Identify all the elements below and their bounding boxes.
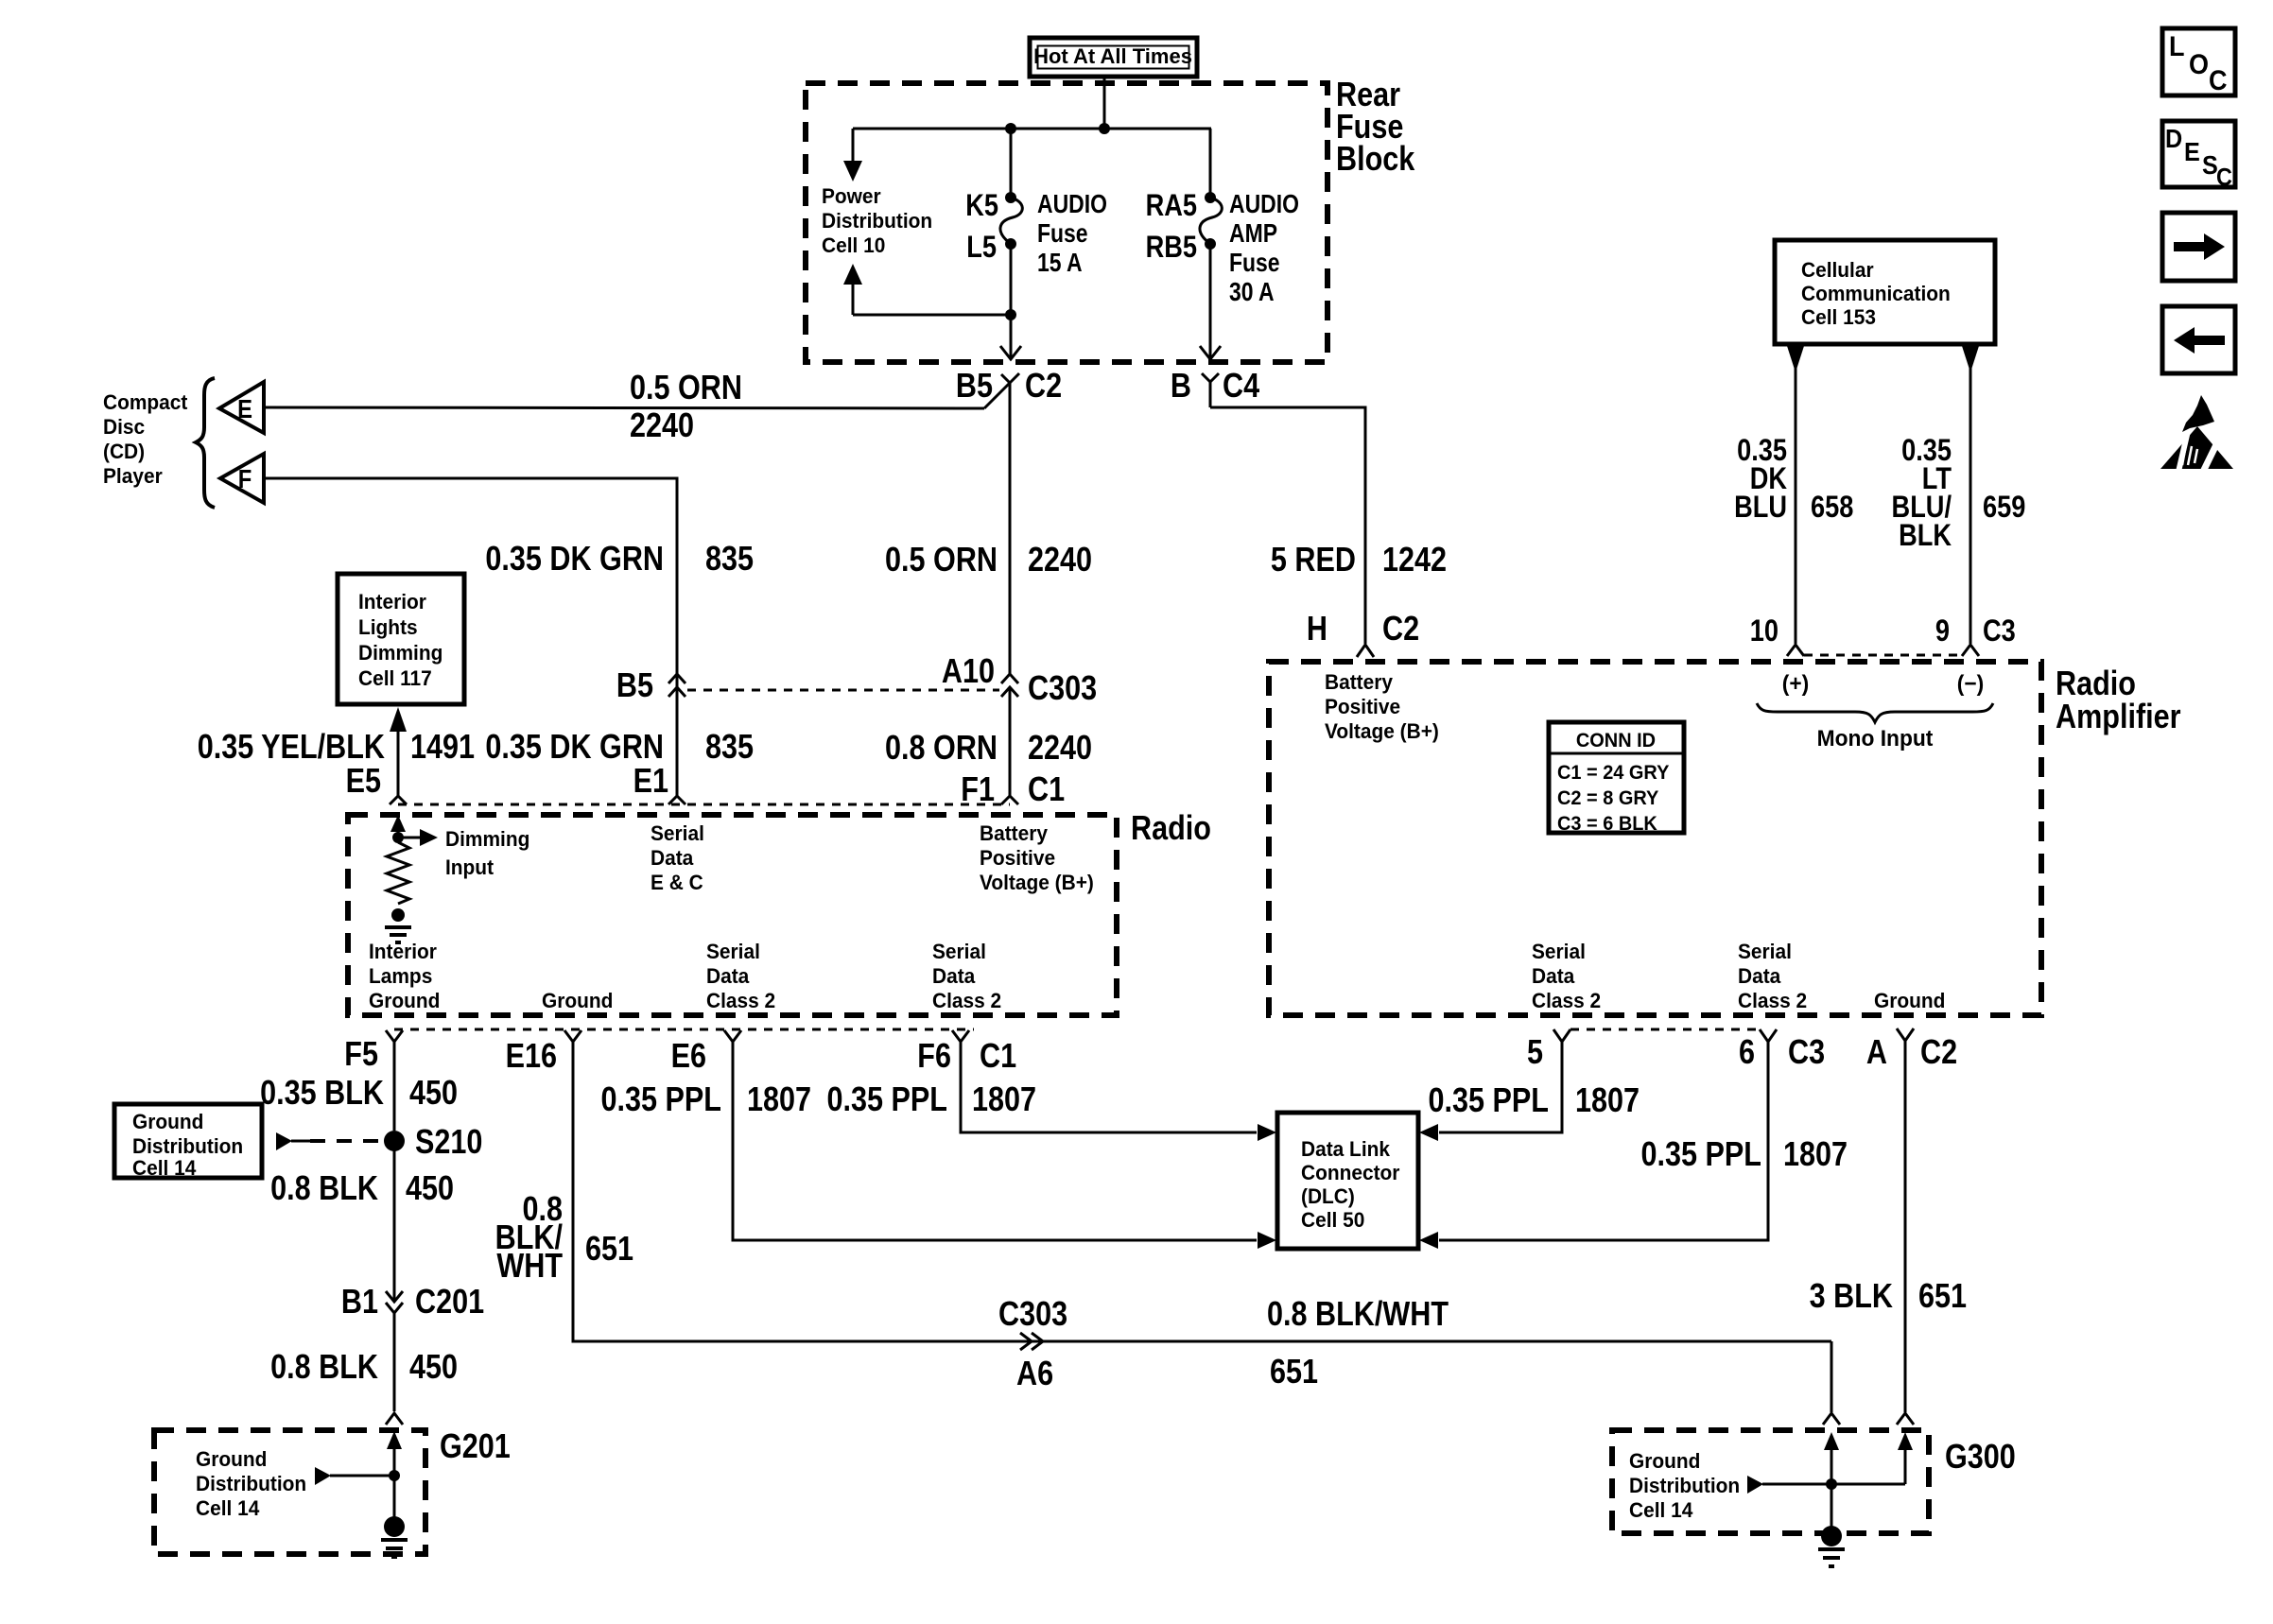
fuse AUDIO AMP Fuse 30A — [1200, 129, 1222, 250]
svg-text:Battery: Battery — [1325, 671, 1393, 695]
svg-text:10: 10 — [1750, 614, 1778, 648]
connector chevrons above G300 — [1823, 1413, 1840, 1425]
svg-text:Serial: Serial — [1738, 941, 1792, 964]
svg-text:C1: C1 — [1028, 771, 1065, 809]
ground G201 box — [154, 1430, 425, 1554]
svg-text:E & C: E & C — [651, 872, 703, 895]
connector E triangle — [219, 382, 264, 433]
svg-text:G300: G300 — [1945, 1439, 2016, 1477]
svg-text:C303: C303 — [1028, 670, 1097, 708]
svg-text:Cell 153: Cell 153 — [1801, 306, 1876, 330]
svg-text:0.8 BLK: 0.8 BLK — [270, 1349, 378, 1387]
svg-text:Cell 117: Cell 117 — [358, 667, 432, 691]
radio outline — [348, 815, 1117, 1015]
power distribution feed arrow — [843, 129, 862, 181]
svg-text:C: C — [2216, 164, 2232, 191]
svg-text:E: E — [237, 393, 252, 423]
svg-text:C2: C2 — [1025, 368, 1062, 406]
bus wire inside fuse block — [853, 128, 1211, 130]
svg-text:A6: A6 — [1016, 1356, 1053, 1393]
connector pin 6 / C3 — [1760, 1029, 1777, 1042]
svg-text:BLK: BLK — [1899, 519, 1952, 553]
icon LOC — [2162, 28, 2235, 96]
svg-text:Voltage (B+): Voltage (B+) — [1325, 720, 1439, 744]
ground G300 box — [1612, 1430, 1929, 1533]
svg-text:Serial: Serial — [932, 941, 986, 964]
G201 splice triangle — [315, 1467, 400, 1485]
wire 0.35 PPL 1807 from F6 to DLC — [961, 1042, 1276, 1141]
svg-text:Lights: Lights — [358, 616, 418, 640]
svg-text:E1: E1 — [633, 763, 668, 801]
svg-text:Lamps: Lamps — [369, 965, 432, 989]
svg-text:Distribution: Distribution — [132, 1135, 243, 1159]
svg-text:C2: C2 — [1382, 611, 1419, 648]
connector E6 — [724, 1030, 741, 1042]
radio internal case ground — [385, 908, 411, 942]
connector F5 — [386, 1030, 403, 1042]
svg-text:Cell 14: Cell 14 — [1629, 1499, 1692, 1523]
connector H / C2 at amplifier — [1357, 645, 1374, 657]
icon DESC — [2162, 121, 2235, 191]
connector pin 9 / C3 — [1962, 645, 1979, 656]
svg-text:C: C — [2209, 65, 2227, 97]
dashed splice link to S210 — [276, 1132, 386, 1150]
wire fuse2 output — [1200, 244, 1221, 359]
svg-text:CONN ID: CONN ID — [1576, 730, 1656, 752]
svg-text:B1: B1 — [341, 1284, 378, 1322]
radio amplifier outline — [1269, 662, 2041, 1015]
svg-text:Fuse: Fuse — [1229, 249, 1280, 278]
svg-text:450: 450 — [409, 1349, 458, 1387]
connector F1 / C1 — [1001, 796, 1018, 804]
svg-text:F: F — [238, 463, 252, 493]
svg-text:1491: 1491 — [410, 729, 475, 767]
interior lights dimming box — [338, 574, 464, 704]
wire 0.8 BLK 450 (S210 to C201) — [393, 1141, 396, 1302]
svg-text:C4: C4 — [1223, 368, 1259, 406]
svg-text:Dimming: Dimming — [445, 828, 529, 852]
connector row at radio top — [398, 803, 1010, 806]
svg-text:Data: Data — [1532, 965, 1575, 989]
connector E5 — [390, 796, 407, 804]
svg-text:Amplifier: Amplifier — [2056, 699, 2181, 736]
svg-text:Data Link: Data Link — [1301, 1138, 1390, 1162]
svg-text:Ground: Ground — [132, 1111, 203, 1134]
G300 internal arrows and wires — [1824, 1432, 1913, 1538]
power distribution return arrow — [843, 264, 1011, 315]
svg-text:Ground: Ground — [542, 990, 613, 1013]
svg-text:Block: Block — [1336, 141, 1415, 179]
svg-text:C3 = 6 BLK: C3 = 6 BLK — [1557, 813, 1657, 836]
connector row at amplifier top — [1804, 654, 1962, 657]
svg-text:Connector: Connector — [1301, 1162, 1400, 1185]
svg-text:H: H — [1307, 611, 1327, 648]
svg-text:B: B — [1171, 368, 1191, 406]
connector C303 / A6 on 651 wire — [1020, 1333, 1043, 1350]
svg-text:Hot At All Times: Hot At All Times — [1033, 44, 1192, 68]
svg-text:Positive: Positive — [980, 847, 1055, 871]
svg-text:835: 835 — [705, 541, 754, 579]
svg-text:L5: L5 — [966, 231, 997, 265]
svg-text:E16: E16 — [506, 1038, 557, 1076]
svg-text:651: 651 — [1270, 1354, 1318, 1391]
connector B5 chevrons on F wire — [668, 674, 685, 697]
svg-text:AMP: AMP — [1229, 219, 1277, 249]
connector B5 / C2 at fuse block output — [984, 373, 1019, 674]
svg-text:(+): (+) — [1782, 670, 1809, 696]
svg-text:Ground: Ground — [1629, 1450, 1700, 1474]
wire 5 RED 1242 from C4 to radio amplifier — [1210, 407, 1365, 644]
svg-text:A: A — [1866, 1034, 1887, 1072]
wire 0.5 ORN 2240 from E to B5 — [264, 407, 984, 408]
G201 internal arrow and wire — [387, 1431, 402, 1529]
power source label "Hot At All Times" — [1030, 38, 1197, 77]
svg-text:0.8 ORN: 0.8 ORN — [885, 730, 998, 768]
svg-text:RB5: RB5 — [1146, 231, 1197, 265]
svg-text:B5: B5 — [616, 667, 653, 705]
svg-text:Dimming: Dimming — [358, 642, 442, 665]
svg-text:15 A: 15 A — [1037, 249, 1083, 278]
svg-text:0.35 PPL: 0.35 PPL — [1428, 1082, 1549, 1120]
svg-text:5: 5 — [1527, 1034, 1543, 1072]
svg-text:3 BLK: 3 BLK — [1810, 1278, 1893, 1316]
connector E1 — [668, 796, 685, 804]
svg-text:Mono Input: Mono Input — [1817, 725, 1934, 751]
svg-text:0.35 PPL: 0.35 PPL — [600, 1081, 721, 1119]
svg-text:D: D — [2165, 124, 2182, 154]
svg-text:450: 450 — [409, 1075, 458, 1113]
svg-text:1807: 1807 — [747, 1081, 811, 1119]
wire 3 BLK 651 from pin A to G300 — [1904, 1041, 1907, 1412]
rear fuse block outline — [806, 83, 1327, 362]
svg-text:Distribution: Distribution — [196, 1473, 306, 1496]
connector F6 / C1 — [952, 1030, 969, 1042]
svg-text:E: E — [2184, 137, 2200, 167]
svg-text:1807: 1807 — [1575, 1082, 1640, 1120]
svg-text:30 A: 30 A — [1229, 278, 1275, 307]
svg-text:1807: 1807 — [972, 1081, 1036, 1119]
svg-text:Voltage (B+): Voltage (B+) — [980, 872, 1094, 895]
wire hot feed into fuse block — [1103, 77, 1106, 129]
svg-text:Class 2: Class 2 — [706, 990, 775, 1013]
mono input brace — [1757, 703, 1993, 722]
connector chevron above G201 — [386, 1413, 403, 1425]
svg-text:450: 450 — [406, 1170, 454, 1208]
svg-text:0.35 DK GRN: 0.35 DK GRN — [485, 541, 664, 579]
svg-text:Serial: Serial — [1532, 941, 1586, 964]
icon ESD warning — [2160, 395, 2233, 472]
svg-text:Input: Input — [445, 856, 494, 880]
svg-text:Cell 50: Cell 50 — [1301, 1209, 1364, 1233]
svg-text:651: 651 — [1918, 1278, 1967, 1316]
svg-text:S210: S210 — [415, 1124, 482, 1162]
svg-text:Communication: Communication — [1801, 283, 1951, 306]
G300 ground symbol — [1818, 1526, 1845, 1566]
svg-text:O: O — [2189, 49, 2209, 81]
svg-text:Disc: Disc — [103, 416, 145, 440]
svg-text:9: 9 — [1935, 614, 1950, 648]
svg-text:Positive: Positive — [1325, 696, 1400, 719]
svg-text:Battery: Battery — [980, 822, 1048, 846]
svg-text:1807: 1807 — [1783, 1136, 1848, 1174]
svg-text:L: L — [2169, 31, 2184, 63]
wire 651 turn down to G300 — [1831, 1341, 1833, 1412]
svg-text:Ground: Ground — [369, 990, 440, 1013]
svg-text:RA5: RA5 — [1146, 189, 1197, 223]
wire 0.35 PPL 1807 from pin 6 to DLC — [1419, 1042, 1768, 1249]
connector pin 5 — [1553, 1029, 1570, 1042]
wire 0.35 YEL/BLK 1491 to interior lights — [390, 707, 407, 796]
svg-text:835: 835 — [705, 729, 754, 767]
svg-text:AUDIO: AUDIO — [1229, 190, 1299, 219]
svg-text:Data: Data — [932, 965, 976, 989]
svg-text:C201: C201 — [415, 1284, 484, 1322]
wire 0.35 LT BLU/BLK 659 — [1962, 344, 1979, 644]
svg-text:E6: E6 — [671, 1038, 706, 1076]
svg-text:C3: C3 — [1983, 614, 2016, 648]
svg-text:Class 2: Class 2 — [1532, 990, 1601, 1013]
wire 0.8 BLK/WHT 651 from E16 — [573, 1042, 1831, 1341]
svg-text:0.35 PPL: 0.35 PPL — [1640, 1136, 1761, 1174]
svg-text:658: 658 — [1811, 491, 1853, 525]
svg-text:651: 651 — [585, 1231, 633, 1269]
svg-text:C303: C303 — [998, 1296, 1067, 1334]
svg-text:Interior: Interior — [369, 941, 438, 964]
connector row at radio bottom — [394, 1028, 974, 1031]
connector pin A / C2 — [1897, 1028, 1914, 1041]
G300 splice triangle — [1747, 1476, 1837, 1494]
connector pin 10 — [1787, 645, 1804, 656]
connector row at amplifier bottom — [1570, 1028, 1760, 1031]
svg-text:AUDIO: AUDIO — [1037, 190, 1107, 219]
svg-text:0.5 ORN: 0.5 ORN — [630, 370, 742, 407]
wire 0.35 PPL 1807 from E6 to DLC — [733, 1042, 1276, 1249]
svg-text:C3: C3 — [1788, 1034, 1825, 1072]
svg-text:Class 2: Class 2 — [932, 990, 1001, 1013]
svg-text:2240: 2240 — [630, 407, 694, 445]
svg-text:(CD): (CD) — [103, 441, 145, 464]
svg-text:B5: B5 — [956, 368, 993, 406]
svg-text:Interior: Interior — [358, 591, 427, 614]
svg-text:0.35 DK GRN: 0.35 DK GRN — [485, 729, 664, 767]
svg-text:0.8 BLK: 0.8 BLK — [270, 1170, 378, 1208]
svg-text:Player: Player — [103, 465, 163, 489]
G201 ground symbol — [381, 1516, 408, 1557]
wire fuse1 output — [1000, 244, 1021, 359]
svg-text:659: 659 — [1983, 491, 2025, 525]
radio dimming input arrow — [390, 815, 438, 846]
svg-text:0.35 YEL/BLK: 0.35 YEL/BLK — [198, 729, 385, 767]
svg-text:2240: 2240 — [1028, 730, 1092, 768]
svg-text:Cell 14: Cell 14 — [132, 1157, 196, 1181]
svg-text:Power: Power — [822, 185, 881, 209]
splice S210 — [384, 1131, 405, 1151]
wire 0.35 PPL 1807 from pin 5 to DLC — [1419, 1042, 1562, 1141]
svg-text:Radio: Radio — [2056, 665, 2136, 703]
svg-text:0.8 BLK/WHT: 0.8 BLK/WHT — [1267, 1296, 1449, 1334]
svg-text:Ground: Ground — [1874, 990, 1945, 1013]
CONN ID table — [1549, 722, 1684, 835]
svg-text:Ground: Ground — [196, 1448, 267, 1472]
svg-text:1242: 1242 — [1382, 542, 1447, 579]
svg-text:C2: C2 — [1920, 1034, 1957, 1072]
data link connector box — [1277, 1113, 1418, 1249]
svg-text:Compact: Compact — [103, 391, 187, 415]
svg-text:Fuse: Fuse — [1037, 219, 1088, 249]
svg-text:(−): (−) — [1957, 670, 1984, 696]
svg-text:Class 2: Class 2 — [1738, 990, 1807, 1013]
svg-text:Cell 14: Cell 14 — [196, 1497, 259, 1521]
connector A10 / C303 chevrons — [1001, 674, 1018, 697]
svg-text:5 RED: 5 RED — [1271, 542, 1356, 579]
svg-text:0.35 BLK: 0.35 BLK — [260, 1075, 384, 1113]
svg-text:Data: Data — [706, 965, 750, 989]
cellular communication box — [1775, 240, 1995, 344]
svg-text:C1 = 24 GRY: C1 = 24 GRY — [1557, 762, 1670, 785]
svg-text:WHT: WHT — [496, 1248, 563, 1286]
node at hot feed — [1099, 123, 1110, 134]
connector B1 / C201 — [386, 1291, 403, 1411]
svg-text:F5: F5 — [344, 1036, 378, 1074]
fuse AUDIO Fuse 15A — [1000, 129, 1022, 250]
svg-text:Data: Data — [1738, 965, 1781, 989]
node at fuse1 feed — [1005, 123, 1016, 134]
svg-text:0.35 PPL: 0.35 PPL — [826, 1081, 947, 1119]
svg-text:Cell 10: Cell 10 — [822, 234, 885, 258]
svg-text:Data: Data — [651, 847, 694, 871]
svg-text:6: 6 — [1739, 1034, 1755, 1072]
connector F triangle — [220, 454, 264, 503]
wire 0.35 DK GRN 835 from F down to radio E1 — [264, 478, 677, 796]
svg-text:Distribution: Distribution — [822, 210, 932, 233]
svg-text:C2 = 8 GRY: C2 = 8 GRY — [1557, 787, 1659, 810]
svg-text:G201: G201 — [440, 1428, 511, 1466]
svg-text:Distribution: Distribution — [1629, 1475, 1740, 1498]
svg-text:A10: A10 — [942, 653, 995, 691]
svg-text:C1: C1 — [980, 1038, 1016, 1076]
wire 0.8 ORN 2240 into radio — [1009, 687, 1012, 796]
icon arrow left — [2162, 306, 2235, 373]
connector B / C4 at fuse2 output — [1202, 373, 1219, 407]
svg-text:2240: 2240 — [1028, 542, 1092, 579]
svg-text:K5: K5 — [965, 189, 998, 223]
svg-text:F6: F6 — [917, 1038, 951, 1076]
svg-text:(DLC): (DLC) — [1301, 1185, 1355, 1209]
brace for CD player — [196, 378, 215, 508]
ground distribution cell 14 box (solid) — [114, 1104, 262, 1180]
svg-text:Serial: Serial — [706, 941, 760, 964]
svg-text:BLU: BLU — [1734, 491, 1787, 525]
svg-text:Cellular: Cellular — [1801, 259, 1874, 283]
svg-text:Serial: Serial — [651, 822, 704, 846]
dashed connector link B5 to A10 — [687, 689, 999, 692]
connector E16 — [564, 1030, 581, 1042]
icon arrow right — [2162, 213, 2235, 281]
wire 0.35 BLK 450 (F5 to S210) — [393, 1042, 396, 1131]
svg-text:E5: E5 — [346, 763, 381, 801]
svg-text:Radio: Radio — [1131, 810, 1211, 848]
resistor (dimming input) — [387, 842, 409, 904]
svg-text:0.5 ORN: 0.5 ORN — [885, 542, 998, 579]
wire 0.35 DK BLU 658 — [1787, 344, 1804, 644]
